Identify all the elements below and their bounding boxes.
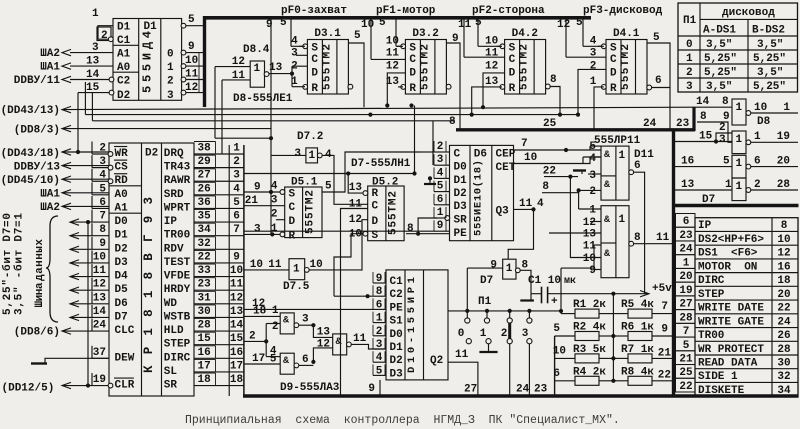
svg-text:D3: D3 xyxy=(115,257,129,269)
svg-text:D7: D7 xyxy=(480,275,493,287)
wire resistor center rail xyxy=(612,294,614,381)
svg-text:Q2: Q2 xyxy=(430,355,443,367)
wire D10 bottom 9 xyxy=(379,380,381,396)
svg-text:12: 12 xyxy=(557,19,570,31)
svg-text:17: 17 xyxy=(230,360,243,372)
svg-text:24: 24 xyxy=(643,118,657,130)
svg-text:5: 5 xyxy=(325,181,332,193)
D11 lower input 12 xyxy=(590,221,601,223)
svg-text:5,25": 5,25" xyxy=(753,81,786,93)
D1 output cell rail xyxy=(198,53,200,93)
svg-text:CS: CS xyxy=(115,162,129,174)
svg-text:4: 4 xyxy=(589,153,596,165)
pin 14 C2 xyxy=(70,79,111,81)
svg-text:D4.2: D4.2 xyxy=(512,28,538,40)
svg-text:5: 5 xyxy=(437,181,444,193)
svg-text:D5.2: D5.2 xyxy=(372,177,398,189)
svg-text:2: 2 xyxy=(99,143,106,155)
svg-text:D: D xyxy=(289,216,296,228)
svg-text:3: 3 xyxy=(302,314,309,326)
svg-text:C: C xyxy=(289,202,296,214)
svg-text:555ТМ2: 555ТМ2 xyxy=(321,44,333,90)
wire D2 row 7 xyxy=(216,235,245,237)
wire inv1 output 10 1 xyxy=(751,112,798,114)
wire net 2 to D9 inputs xyxy=(244,340,266,342)
svg-text:TR00: TR00 xyxy=(698,330,724,342)
svg-text:D7.5: D7.5 xyxy=(283,281,310,293)
svg-text:WSTB: WSTB xyxy=(164,311,191,323)
svg-text:D2: D2 xyxy=(117,90,130,102)
svg-text:D2: D2 xyxy=(390,355,403,367)
svg-text:SIDE 1: SIDE 1 xyxy=(698,371,738,383)
D11 upper input 5 xyxy=(589,146,591,150)
wire Q2 output 11 xyxy=(448,362,478,396)
svg-text:DS1 <F6>: DS1 <F6> xyxy=(698,248,758,260)
svg-text:D8: D8 xyxy=(757,116,771,128)
svg-text:D3.1: D3.1 xyxy=(314,28,341,40)
svg-text:31: 31 xyxy=(198,292,212,304)
svg-text:(DD8/6): (DD8/6) xyxy=(14,327,60,339)
wire D2 row 1 xyxy=(216,153,245,155)
svg-text:R: R xyxy=(289,231,296,243)
svg-text:15: 15 xyxy=(86,82,100,94)
connector row DISKETE pins 22/34 xyxy=(676,378,696,392)
svg-text:TR43: TR43 xyxy=(164,162,191,174)
wire D1.D2 to DD43/18 xyxy=(77,93,79,152)
svg-text:&: & xyxy=(604,215,610,226)
svg-text:27: 27 xyxy=(679,299,692,311)
svg-text:14: 14 xyxy=(230,320,244,332)
wire D2 row 13 xyxy=(216,316,245,318)
svg-text:11: 11 xyxy=(185,69,199,81)
svg-text:10: 10 xyxy=(230,265,243,277)
svg-text:7: 7 xyxy=(233,224,240,236)
svg-text:WPRT: WPRT xyxy=(164,202,191,214)
svg-text:13: 13 xyxy=(349,182,363,194)
svg-text:D: D xyxy=(610,68,617,80)
wire data bus arrows D0-D7 xyxy=(70,219,79,225)
svg-text:DEW: DEW xyxy=(115,352,135,364)
wire D2 row 11 xyxy=(216,289,245,291)
D1 output 12 xyxy=(184,92,203,94)
svg-text:22: 22 xyxy=(543,166,556,178)
svg-text:555ТМ2: 555ТМ2 xyxy=(305,190,317,234)
svg-text:C1 10: C1 10 xyxy=(528,275,561,287)
svg-text:D2: D2 xyxy=(115,243,128,255)
svg-text:1: 1 xyxy=(293,264,300,276)
svg-text:8: 8 xyxy=(99,224,106,236)
svg-text:WD: WD xyxy=(164,298,178,310)
wire D4.2 D input xyxy=(483,73,505,107)
NAND gate D9.1 xyxy=(280,313,294,334)
wire D7.5 input xyxy=(244,269,289,271)
svg-text:12: 12 xyxy=(93,279,106,291)
wire thick top bus xyxy=(203,16,206,107)
D11 upper input 2 xyxy=(579,189,601,191)
connector row WRITE DATE pins 27/22 xyxy=(676,296,696,310)
svg-text:555ЛР11: 555ЛР11 xyxy=(594,135,641,147)
wire D3.2 output 9 xyxy=(446,43,460,129)
svg-text:3: 3 xyxy=(254,224,261,236)
D11 lower input 9 xyxy=(594,269,601,271)
NAND gate D9.3 xyxy=(333,334,347,355)
svg-text:25: 25 xyxy=(679,367,693,379)
svg-text:32: 32 xyxy=(198,238,211,250)
svg-text:D8.4: D8.4 xyxy=(243,44,270,56)
wire D5.2 D input from D7.5 xyxy=(362,220,368,271)
svg-text:0: 0 xyxy=(686,39,693,51)
D11 upper input 4 xyxy=(582,157,584,164)
wire P1 contact 2 to 24 xyxy=(509,344,511,396)
svg-text:D: D xyxy=(311,68,318,80)
wire thick bottom xyxy=(243,394,799,398)
svg-text:DRQ: DRQ xyxy=(164,148,184,160)
svg-text:11: 11 xyxy=(519,198,533,210)
svg-text:13: 13 xyxy=(681,179,695,191)
decoder D1 555ID4 xyxy=(113,19,182,101)
svg-text:5: 5 xyxy=(553,323,560,335)
D11 upper input 3 grounded xyxy=(588,173,601,175)
svg-text:24: 24 xyxy=(679,244,693,256)
wire R2 left net 5 xyxy=(555,335,575,337)
svg-text:10: 10 xyxy=(310,259,323,271)
svg-text:16: 16 xyxy=(198,347,211,359)
svg-text:B-DS2: B-DS2 xyxy=(752,25,785,37)
svg-text:2: 2 xyxy=(271,209,278,221)
svg-text:9: 9 xyxy=(99,238,106,250)
D1 output 9 xyxy=(184,52,203,54)
svg-text:S1: S1 xyxy=(390,316,404,328)
svg-text:11: 11 xyxy=(458,19,472,31)
svg-text:D3: D3 xyxy=(390,368,404,380)
wire thick right horizontal xyxy=(672,204,799,207)
svg-text:22: 22 xyxy=(679,381,692,393)
wire D6 Q3 output xyxy=(508,209,533,259)
svg-text:16: 16 xyxy=(681,156,694,168)
D1 output 5 xyxy=(184,25,203,27)
wire D3.2 D input xyxy=(387,73,405,106)
svg-text:10: 10 xyxy=(386,36,399,48)
ground at DEW pin37 xyxy=(45,358,109,363)
wire D10 C2 input xyxy=(334,295,373,297)
wire D9.3 output 11 xyxy=(351,344,386,349)
wire D2 row 17 xyxy=(216,371,245,373)
D11 lower input 13 xyxy=(549,232,601,234)
shift register D10 155IR1 xyxy=(386,270,448,380)
wire inv2 input 15 2 3 xyxy=(675,141,732,143)
svg-text:D3.2: D3.2 xyxy=(412,28,438,40)
wire D8.4 input 11 xyxy=(222,79,250,81)
svg-text:5: 5 xyxy=(270,354,277,366)
svg-text:5,25"-бит D7=0: 5,25"-бит D7=0 xyxy=(1,213,14,315)
svg-text:&: & xyxy=(283,316,289,327)
svg-text:9: 9 xyxy=(452,33,459,45)
svg-text:3,5" -бит D7=1: 3,5" -бит D7=1 xyxy=(13,213,26,315)
svg-text:1: 1 xyxy=(736,102,743,114)
svg-text:3,5": 3,5" xyxy=(706,81,732,93)
wire D2 row 12 xyxy=(216,303,245,305)
svg-text:11: 11 xyxy=(230,279,244,291)
svg-text:D8-555ЛЕ1: D8-555ЛЕ1 xyxy=(233,93,293,105)
svg-text:555ИЕ10(18): 555ИЕ10(18) xyxy=(473,160,485,236)
wire thick right vertical border xyxy=(672,129,675,398)
svg-text:13: 13 xyxy=(230,306,244,318)
svg-text:CEP: CEP xyxy=(496,149,516,161)
svg-text:4: 4 xyxy=(537,198,544,210)
wire +5v rail xyxy=(548,293,648,295)
svg-text:VFDE: VFDE xyxy=(164,271,191,283)
svg-text:HLD: HLD xyxy=(164,325,184,337)
svg-text:555ТМ2: 555ТМ2 xyxy=(519,44,531,90)
svg-text:pF3-дисковод: pF3-дисковод xyxy=(583,5,663,17)
svg-text:1: 1 xyxy=(736,158,743,170)
svg-text:14: 14 xyxy=(696,96,710,108)
svg-text:34: 34 xyxy=(777,385,791,397)
connector row TR00 pins 7/26 xyxy=(676,323,696,337)
wire D8.4 output 13 xyxy=(269,73,292,75)
pin 15 D2 xyxy=(78,92,111,94)
wire D5.2 output 8 xyxy=(406,233,450,235)
svg-text:6: 6 xyxy=(754,156,761,168)
svg-text:555ТМ2: 555ТМ2 xyxy=(419,44,431,90)
inverter D7 bottom xyxy=(503,259,516,279)
svg-text:10: 10 xyxy=(361,19,374,31)
svg-text:12: 12 xyxy=(230,292,243,304)
svg-text:13: 13 xyxy=(93,292,107,304)
svg-text:RDV: RDV xyxy=(164,243,184,255)
svg-text:R: R xyxy=(509,83,516,95)
svg-text:D: D xyxy=(509,68,516,80)
wire D5.2 R input xyxy=(348,174,363,194)
svg-text:9: 9 xyxy=(589,265,596,277)
svg-text:7: 7 xyxy=(99,211,106,223)
svg-text:1: 1 xyxy=(619,214,626,226)
svg-text:29: 29 xyxy=(198,156,211,168)
switch P1 contact 1 xyxy=(486,311,488,318)
switch P1 contact 3 xyxy=(528,311,530,318)
svg-text:4: 4 xyxy=(99,170,106,182)
switch P1 contact 2 closed xyxy=(509,311,511,318)
svg-text:24: 24 xyxy=(93,320,107,332)
inverter D8.1 right xyxy=(732,99,746,125)
svg-text:данных: данных xyxy=(34,239,46,281)
svg-text:5: 5 xyxy=(188,14,195,26)
svg-text:П1: П1 xyxy=(683,15,697,27)
svg-text:6: 6 xyxy=(634,160,641,172)
wire D7.2 output xyxy=(322,155,368,204)
wire D7.5 output xyxy=(309,269,362,271)
wire D8.4 input drops xyxy=(214,67,216,139)
wire D4.1 D input xyxy=(578,69,606,114)
wire D11 upper output 6 xyxy=(634,172,645,293)
connector row DS1 <F6> pins 24/12 xyxy=(676,241,696,255)
wire D4.1 output 6 xyxy=(647,85,652,90)
svg-text:18: 18 xyxy=(777,275,791,287)
svg-text:3,5": 3,5" xyxy=(757,39,783,51)
wire D2 row 16 xyxy=(216,357,245,359)
svg-text:1: 1 xyxy=(271,223,278,235)
svg-text:21: 21 xyxy=(245,195,259,207)
svg-text:мк: мк xyxy=(564,276,576,287)
svg-text:C: C xyxy=(409,54,416,66)
svg-text:38: 38 xyxy=(198,143,212,155)
wire D9.2 input 5 xyxy=(244,363,280,365)
wire D9.3 input 12 xyxy=(313,348,332,362)
connector row WR PROTECT pins 5/28 xyxy=(676,337,696,351)
wire D9.1 output 3 xyxy=(299,324,314,326)
svg-text:5: 5 xyxy=(723,156,730,168)
svg-text:23: 23 xyxy=(534,384,548,396)
svg-text:Принципиальная схема контрол: Принципиальная схема контроллера НГМД_З … xyxy=(185,414,620,427)
svg-text:15: 15 xyxy=(699,131,713,143)
D1 output 11 xyxy=(184,79,203,81)
wire D7 output xyxy=(520,270,531,293)
svg-text:1: 1 xyxy=(725,179,732,191)
connector table xyxy=(695,218,798,397)
svg-text:D2: D2 xyxy=(145,148,158,160)
svg-text:D5: D5 xyxy=(115,284,129,296)
svg-text:D3: D3 xyxy=(454,201,468,213)
svg-text:20: 20 xyxy=(777,156,790,168)
svg-text:12: 12 xyxy=(777,248,790,260)
wire inv3 output 6 20 xyxy=(751,166,798,168)
wire D2 row 18 xyxy=(216,385,245,387)
svg-text:4: 4 xyxy=(437,167,444,179)
svg-text:5: 5 xyxy=(653,32,660,44)
wire inv2 output 1 19 xyxy=(751,141,798,143)
svg-text:4: 4 xyxy=(233,183,240,195)
svg-text:D7: D7 xyxy=(115,311,128,323)
wire D5.1 D stub xyxy=(276,219,285,221)
svg-text:Шина: Шина xyxy=(34,282,46,307)
svg-text:30: 30 xyxy=(777,358,790,370)
svg-text:16: 16 xyxy=(230,347,243,359)
svg-text:3: 3 xyxy=(92,42,99,54)
svg-text:2: 2 xyxy=(589,186,596,198)
connector row MOTOR ON pins 1/16 xyxy=(676,255,696,269)
svg-text:5: 5 xyxy=(576,17,583,29)
svg-text:16: 16 xyxy=(777,261,790,273)
svg-text:14: 14 xyxy=(93,306,107,318)
svg-text:3: 3 xyxy=(291,48,298,60)
svg-text:дисковод: дисковод xyxy=(722,7,775,19)
AOI gate D11 upper xyxy=(601,146,629,200)
svg-text:3: 3 xyxy=(167,90,174,102)
svg-text:1: 1 xyxy=(590,76,597,88)
svg-text:D0: D0 xyxy=(115,216,128,228)
svg-text:1: 1 xyxy=(233,143,240,155)
svg-text:IP: IP xyxy=(164,216,178,228)
svg-text:S: S xyxy=(509,43,516,55)
svg-text:1: 1 xyxy=(736,181,743,193)
wire D3.1 R input xyxy=(291,66,293,87)
wire D5.1 C input xyxy=(244,205,285,207)
svg-text:7: 7 xyxy=(661,301,668,313)
svg-text:&: & xyxy=(283,356,289,367)
svg-text:2: 2 xyxy=(754,179,761,191)
svg-text:12: 12 xyxy=(185,82,198,94)
svg-text:DIRC: DIRC xyxy=(164,352,191,364)
wire D7.2 input xyxy=(215,137,271,139)
svg-text:R: R xyxy=(311,83,318,95)
svg-text:9: 9 xyxy=(490,260,497,272)
svg-text:5: 5 xyxy=(683,340,690,352)
svg-text:12: 12 xyxy=(386,61,399,73)
wire DD8/3 line xyxy=(62,128,271,130)
svg-text:11: 11 xyxy=(268,259,282,271)
inverter D7.4 right xyxy=(732,178,746,201)
svg-text:6: 6 xyxy=(437,194,444,206)
svg-text:14: 14 xyxy=(86,69,100,81)
svg-text:D2: D2 xyxy=(454,188,467,200)
wire D0 to CLR link xyxy=(86,220,90,224)
svg-text:24: 24 xyxy=(516,384,530,396)
svg-text:RD: RD xyxy=(115,175,129,187)
svg-text:D7: D7 xyxy=(702,194,715,206)
svg-text:11: 11 xyxy=(656,232,670,244)
svg-text:18: 18 xyxy=(198,374,212,386)
svg-text:21: 21 xyxy=(679,354,693,366)
svg-text:WR: WR xyxy=(115,148,129,160)
svg-text:10: 10 xyxy=(250,259,263,271)
svg-text:S: S xyxy=(289,189,296,201)
pin 13 A0 xyxy=(70,65,113,67)
connector row DS2<HP+F6> pins 23/10 xyxy=(676,227,696,241)
D2 pin bubbles xyxy=(108,152,113,157)
wire D2 row 5 xyxy=(216,207,245,209)
svg-text:pF0-захват: pF0-захват xyxy=(281,5,347,17)
svg-text:3: 3 xyxy=(719,134,726,146)
svg-text:4: 4 xyxy=(590,36,597,48)
svg-text:2: 2 xyxy=(501,328,508,340)
switch P1 contact 1 ground xyxy=(488,344,490,352)
svg-text:11: 11 xyxy=(455,349,469,361)
wire D2 row 6 xyxy=(216,221,245,223)
svg-text:SR: SR xyxy=(164,380,178,392)
svg-text:3: 3 xyxy=(686,81,693,93)
svg-text:D7-555ЛН1: D7-555ЛН1 xyxy=(351,158,411,170)
svg-text:6: 6 xyxy=(302,354,309,366)
svg-text:2: 2 xyxy=(719,122,726,134)
wire D2 row 3 xyxy=(216,180,245,182)
connector row WRITE GATE pins 28/24 xyxy=(676,310,696,324)
svg-text:Q3: Q3 xyxy=(496,206,510,218)
svg-text:3,5": 3,5" xyxy=(757,67,783,79)
svg-text:11: 11 xyxy=(93,265,107,277)
svg-text:1: 1 xyxy=(686,53,693,65)
svg-text:ША2: ША2 xyxy=(40,202,60,214)
svg-text:S: S xyxy=(610,43,617,55)
svg-text:5: 5 xyxy=(379,17,386,29)
svg-text:27: 27 xyxy=(198,170,211,182)
svg-text:D6: D6 xyxy=(115,298,128,310)
svg-text:S: S xyxy=(311,43,318,55)
svg-text:(DD43/18): (DD43/18) xyxy=(1,148,60,160)
svg-text:ША2: ША2 xyxy=(40,48,60,60)
svg-text:C1: C1 xyxy=(117,35,131,47)
svg-text:5: 5 xyxy=(354,30,361,42)
wire D6 CEP output 7 xyxy=(514,149,602,151)
wire D2 row 14 xyxy=(216,330,245,332)
svg-text:C: C xyxy=(610,54,617,66)
svg-text:2: 2 xyxy=(686,67,693,79)
svg-text:C: C xyxy=(311,54,318,66)
svg-text:20: 20 xyxy=(777,289,790,301)
svg-text:1: 1 xyxy=(754,131,761,143)
wire resistor left rail xyxy=(554,336,556,396)
svg-text:23: 23 xyxy=(198,279,212,291)
switch P1 contact 0 xyxy=(466,311,468,318)
